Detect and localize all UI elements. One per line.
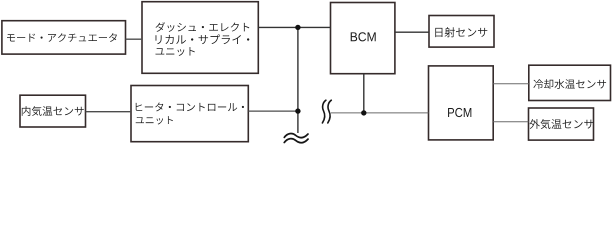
break symbol: wavy continuation on vertical wire	[284, 134, 308, 143]
label: in-vehicle temp sensor text	[22, 106, 84, 116]
wire: PCM to coolant temp sensor	[493, 83, 529, 85]
label: dash unit text line2	[156, 34, 250, 44]
wire: BCM to sunload sensor	[395, 31, 429, 33]
label: heater unit text line2	[136, 116, 173, 124]
wire: mode actuator to dash unit	[126, 38, 143, 40]
label: coolant temp sensor text	[533, 79, 606, 89]
block: BCM box	[331, 3, 395, 74]
wire: dash unit to BCM	[258, 26, 330, 28]
block: coolant temp sensor box	[529, 65, 611, 100]
junction dot: heater wire / vertical	[295, 108, 300, 113]
wire: heater unit to junction	[248, 110, 298, 112]
label: heater unit text line1	[136, 102, 244, 111]
wire: BCM to bottom junction	[363, 74, 365, 113]
wire: PCM to ambient temp sensor	[493, 121, 528, 123]
label: sunload sensor text	[435, 27, 487, 37]
block: sunload sensor box	[429, 16, 494, 48]
label: BCM text	[351, 32, 376, 41]
block: in-vehicle temp sensor box	[20, 95, 86, 127]
label: dash unit text line3	[156, 47, 195, 56]
block: dash electrical supply unit box	[142, 2, 258, 74]
block: ambient temp sensor box	[529, 108, 594, 140]
block: mode actuator box	[2, 21, 126, 54]
wire: vertical drop from dash-BCM wire	[297, 27, 299, 133]
label: PCM text	[448, 108, 471, 117]
label: dash unit text line1	[156, 22, 250, 32]
label: ambient temp sensor text	[530, 119, 594, 129]
block: heater control unit box	[131, 86, 248, 142]
label: mode actuator text	[7, 33, 117, 42]
junction dot: dash-BCM wire / vertical	[295, 25, 300, 30]
block: PCM box	[429, 66, 494, 140]
break symbol: wavy continuation on horizontal wire to PCM	[322, 100, 331, 123]
wire: in-vehicle temp sensor to heater unit	[86, 111, 132, 113]
junction dot: BCM drop / PCM wire	[361, 110, 366, 115]
wire: break to PCM	[331, 112, 429, 114]
